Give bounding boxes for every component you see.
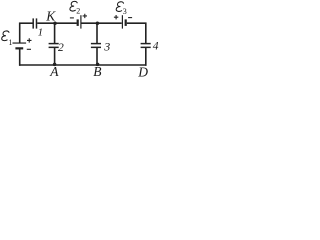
label EMF script-E2 glyph [70, 1, 77, 11]
capacitor C1 left plate [32, 18, 34, 28]
svg-text:B: B [93, 64, 101, 79]
minus sign of E2 [70, 17, 74, 19]
battery E1 long thin plate [13, 42, 27, 44]
wire branch 2 lower [54, 48, 56, 66]
svg-text:4: 4 [153, 40, 159, 52]
svg-text:2: 2 [76, 6, 80, 15]
capacitor C3 top plate [91, 43, 101, 45]
svg-text:K: K [45, 9, 56, 24]
capacitor C3 bottom plate [91, 46, 101, 48]
wire left lower segment [19, 49, 21, 66]
svg-text:1: 1 [38, 27, 44, 39]
label EMF script-E3 glyph [116, 2, 123, 12]
battery E3 long thin plate [121, 15, 123, 28]
svg-text:3: 3 [103, 39, 110, 53]
svg-text:D: D [137, 64, 148, 79]
wire right upper segment [145, 23, 147, 44]
svg-text:2: 2 [58, 42, 64, 54]
plus sign of E3 [114, 15, 118, 19]
wire top middle segment [37, 22, 76, 24]
minus sign of E3 [128, 17, 132, 19]
capacitor C1 right plate [36, 18, 38, 28]
wire top-right segment [127, 22, 147, 24]
svg-text:A: A [49, 64, 59, 79]
minus sign of E1 [27, 48, 31, 50]
wire left upper segment [19, 23, 21, 43]
wire branch 3 upper [96, 23, 98, 43]
wire bottom [19, 64, 146, 66]
capacitor C2 bottom plate [49, 46, 59, 48]
node dot top of branch 3 [96, 22, 100, 26]
svg-text:3: 3 [123, 7, 127, 16]
wire top-left segment [19, 22, 32, 24]
node B dot [96, 63, 100, 67]
svg-text:1: 1 [9, 38, 13, 47]
node dot top of branch 2 [53, 22, 57, 26]
capacitor C4 bottom plate [141, 46, 151, 48]
battery E1 short thick plate [15, 47, 23, 49]
wire branch 3 lower [96, 48, 98, 66]
label EMF script-E1 glyph [2, 31, 9, 41]
battery E3 short thick plate [125, 19, 127, 26]
capacitor C2 top plate [49, 43, 59, 45]
node A dot [53, 63, 57, 67]
capacitor C4 top plate [141, 43, 151, 45]
battery E2 short thick plate [77, 19, 79, 26]
plus sign of E1 [27, 38, 32, 42]
wire top segment between E2 and E3 [82, 22, 122, 24]
battery E2 long thin plate [80, 15, 82, 28]
wire branch 2 upper [54, 23, 56, 43]
wire right lower segment [145, 48, 147, 66]
plus sign of E2 [83, 14, 87, 18]
